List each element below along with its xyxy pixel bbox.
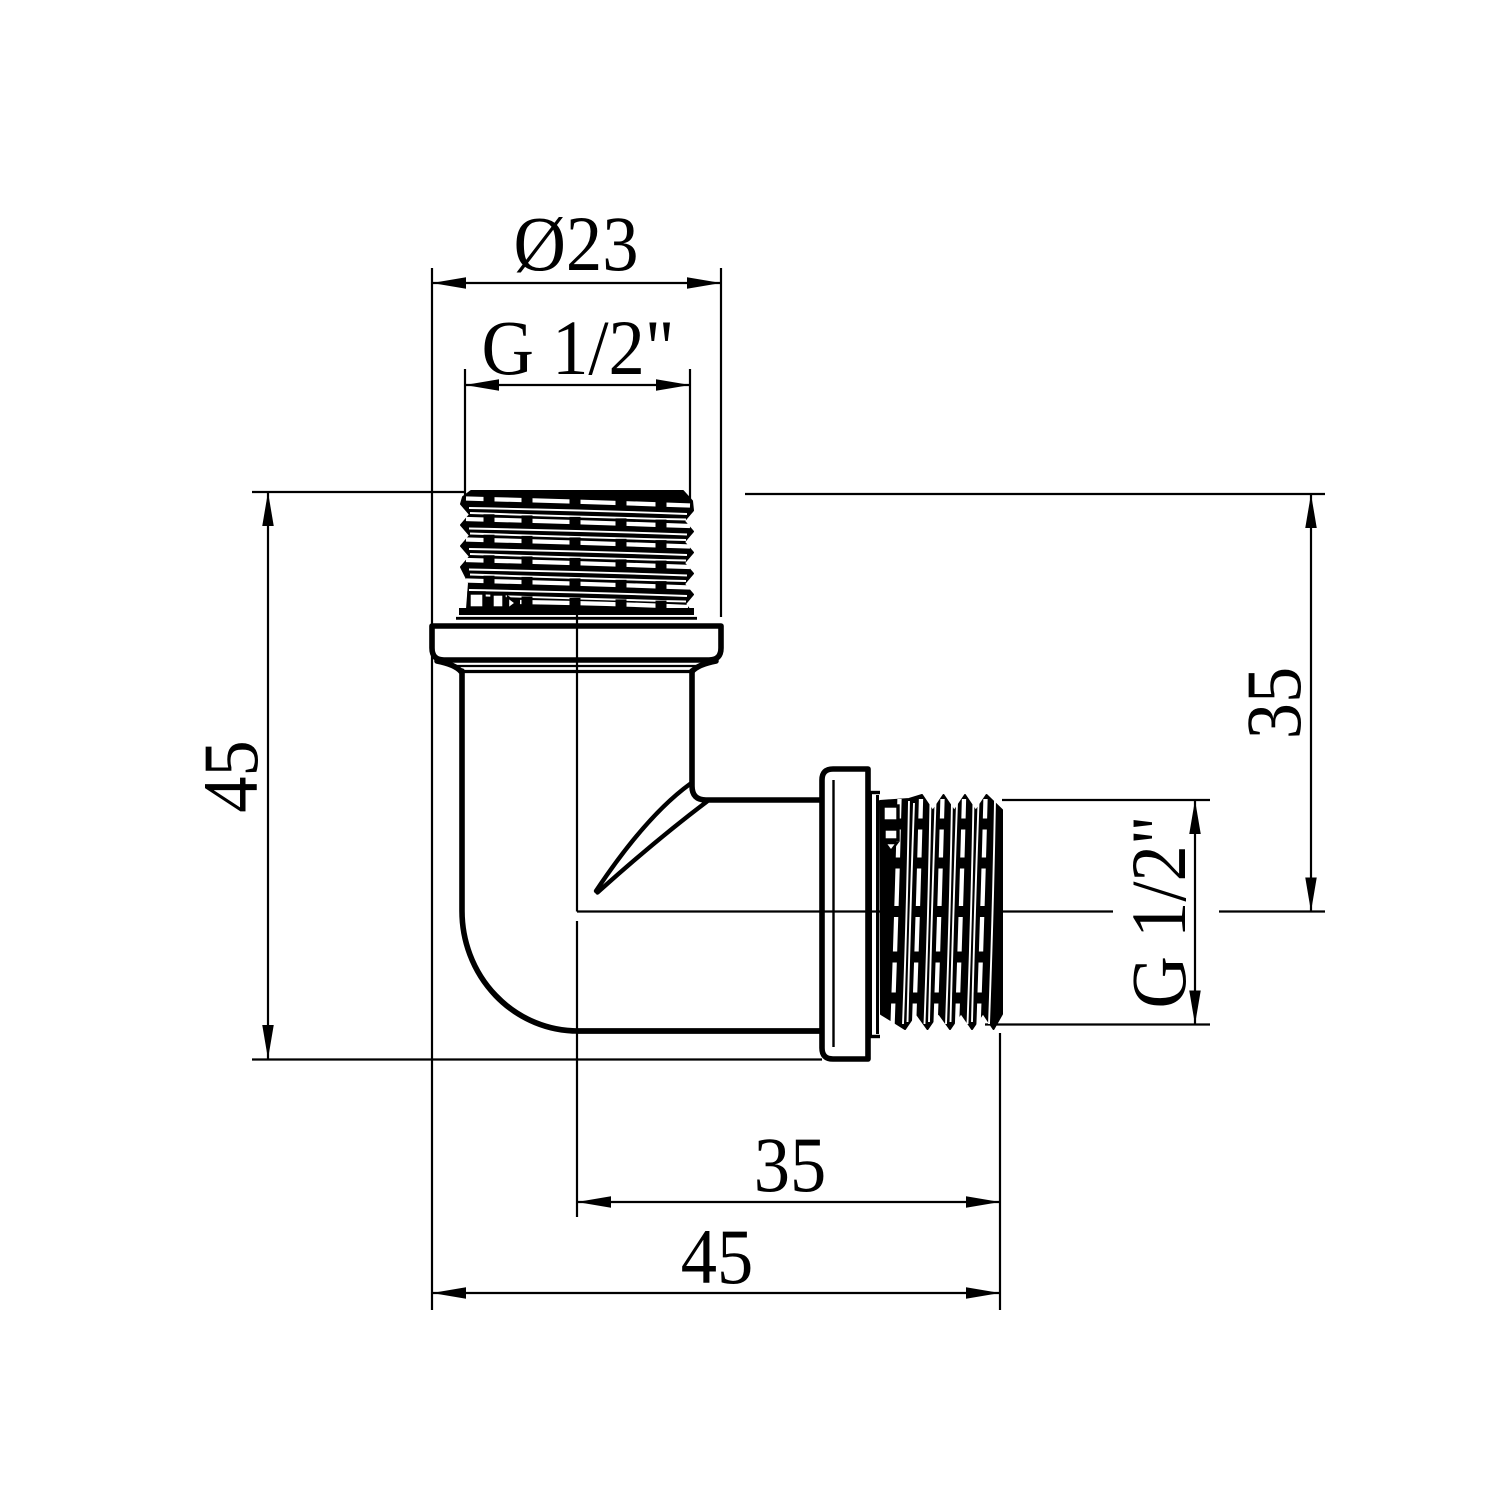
dimension 35 horizontal bottom [577, 1201, 1000, 1203]
svg-text:G 1/2": G 1/2" [1115, 816, 1202, 1009]
svg-text:G 1/2": G 1/2" [482, 304, 675, 391]
right male thread G1/2 (horizontal outlet) [880, 795, 1002, 1029]
dimension G 1/2 inch right [1194, 800, 1196, 1025]
dimension dia 23 [432, 282, 721, 284]
thread runout detail (top thread) [469, 593, 516, 609]
dimension G 1/2 inch top [465, 384, 690, 386]
svg-text:Ø23: Ø23 [514, 200, 639, 287]
horizontal centerline of right outlet [577, 910, 1325, 912]
neck cone under flange [437, 661, 461, 672]
extension line right (flange right / dia 23) [720, 268, 722, 617]
right flange (collar) [822, 769, 868, 1059]
thread crest/root lines (top thread) [466, 499, 690, 608]
extension line left (flange left / dia 23) [431, 268, 433, 1310]
thread root shading blocks (right thread) [888, 819, 990, 1004]
thread relief groove (right) [868, 793, 880, 1037]
dimension 45 horizontal bottom [432, 1292, 1000, 1294]
svg-text:35: 35 [754, 1121, 827, 1208]
svg-text:45: 45 [681, 1213, 754, 1300]
svg-text:45: 45 [187, 740, 274, 813]
extension line top of thread (45 dim, left) [252, 491, 466, 493]
elbow body outer contour [462, 671, 820, 1031]
elbow body inner contour (vertical tube right edge, inner corner, branch top edge) [692, 671, 820, 800]
right branch tube lines [578, 1028, 820, 1034]
thread crest/root lines (right thread) [893, 799, 996, 1026]
inner fillet cusp upper curve [596, 784, 690, 891]
thread root shading blocks (top thread) [484, 494, 667, 612]
thread runout detail (right thread) [883, 806, 898, 851]
extension line top of thread (35 dim, right) [745, 493, 1325, 495]
right flange tangent line [832, 780, 834, 1047]
extension line right thread end (bottom dims) [999, 1033, 1001, 1310]
thread base band (top thread) [459, 608, 694, 615]
vertical centerline of top outlet [576, 492, 578, 1217]
extension lines G1/2 top [465, 369, 690, 509]
svg-text:35: 35 [1230, 667, 1317, 740]
extension line bottom of flange (45 dim) [252, 1058, 822, 1060]
dimension 35 vertical right [1310, 494, 1312, 912]
extension lines G1/2 right [985, 800, 1210, 1025]
upper flange (hex collar) [432, 626, 721, 660]
inner fillet cusp lower curve [598, 802, 708, 893]
dimension 45 vertical left [267, 492, 269, 1059]
top male thread G1/2 (vertical outlet) [461, 491, 693, 609]
